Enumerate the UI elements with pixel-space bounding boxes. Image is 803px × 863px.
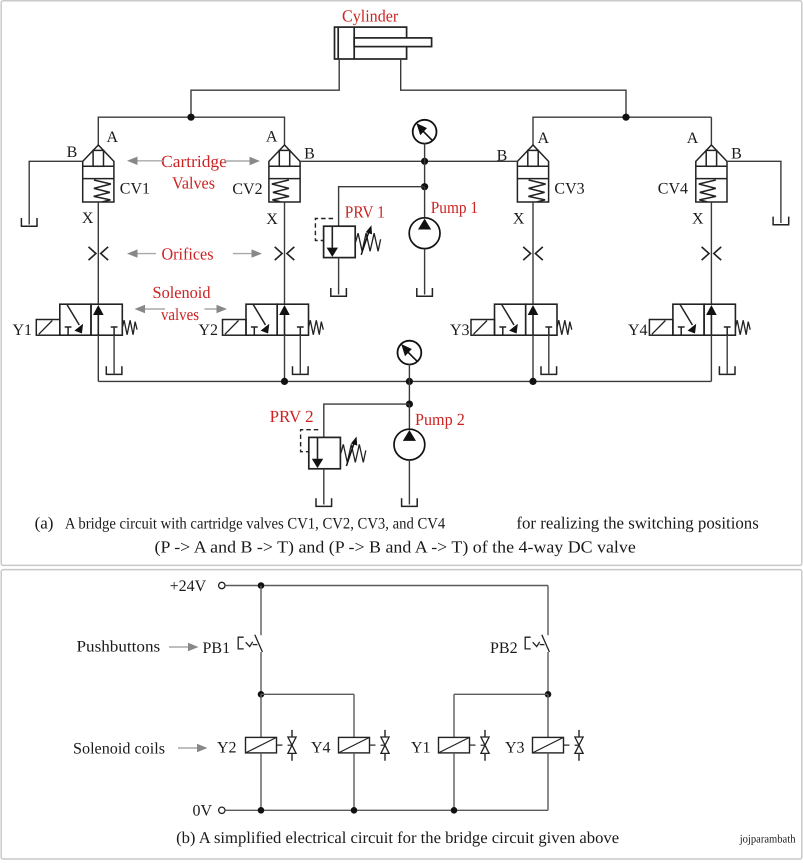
svg-text:Pump 1: Pump 1 <box>431 198 478 217</box>
wire B bus CV2-CV3 <box>300 160 517 162</box>
junction Y2 bus <box>281 378 288 385</box>
wire P Y2 <box>284 335 286 381</box>
pump 2 <box>394 429 425 460</box>
wire B CV4 to tank <box>727 161 781 223</box>
svg-text:Y1: Y1 <box>411 740 431 757</box>
pressure relief valve PRV2 <box>301 430 366 469</box>
svg-text:X: X <box>513 211 525 228</box>
wire pump1 node to pump1 <box>424 187 426 218</box>
wire X CV4 <box>710 202 712 304</box>
svg-text:A bridge circuit with cartridg: A bridge circuit with cartridge valves C… <box>65 516 445 533</box>
terminal +24V <box>219 582 225 588</box>
tank PRV1 <box>330 288 347 296</box>
junction pump1 node <box>421 183 428 190</box>
pushbutton PB1 <box>238 635 262 652</box>
pump 1 <box>409 218 440 249</box>
wire PB2 upper <box>547 586 549 636</box>
svg-text:B: B <box>304 146 315 163</box>
wire pump2 node to pump2 <box>408 404 410 430</box>
arrow to orifice2 <box>233 249 262 257</box>
pressure gauge 1 <box>413 120 437 144</box>
orifice 2 <box>275 247 295 260</box>
svg-text:PB2: PB2 <box>490 640 518 657</box>
pressure gauge 2 <box>398 341 422 365</box>
wire +24V rail <box>225 585 548 587</box>
wire pump2 to tank <box>408 460 410 505</box>
cartridge valve CV4 <box>696 145 727 202</box>
arrow to Y2 coil <box>178 744 208 752</box>
solenoid valve Y3 <box>471 304 572 374</box>
svg-text:Y4: Y4 <box>628 322 648 339</box>
junction left A-bus <box>187 114 194 121</box>
wire Y1 branch to PB2 <box>454 693 548 695</box>
junction PB1 bottom <box>258 691 265 698</box>
pushbutton PB2 <box>525 635 549 652</box>
svg-text:Valves: Valves <box>172 174 215 193</box>
svg-text:CV1: CV1 <box>120 180 150 197</box>
svg-text:B: B <box>731 146 742 163</box>
wire X CV3 <box>532 202 534 304</box>
svg-text:for realizing the switching p: for realizing the switching positions <box>516 514 758 533</box>
arrow to Y2 <box>205 305 228 313</box>
solenoid coil Y3 <box>533 730 584 761</box>
svg-text:X: X <box>82 210 94 227</box>
cylinder <box>335 27 432 59</box>
junction B bus <box>421 158 428 165</box>
cartridge valve CV3 <box>517 145 548 202</box>
arrow to PB1 <box>169 643 199 651</box>
orifice 4 <box>702 247 722 260</box>
junction PB2 bottom <box>545 691 552 698</box>
solenoid valve Y1 <box>36 304 137 374</box>
wire cylinder right port <box>401 59 626 117</box>
arrow to Y1 <box>135 305 166 313</box>
wire gauge2 to bus <box>408 364 410 381</box>
svg-text:Y3: Y3 <box>505 740 525 757</box>
junction right A-bus <box>622 114 629 121</box>
svg-text:X: X <box>266 211 278 228</box>
tank B CV1 <box>21 218 38 226</box>
wire pump2 node to PRV2 <box>324 404 410 437</box>
svg-text:X: X <box>692 211 704 228</box>
wire Y4 branch lower <box>353 753 355 810</box>
wire 0V rail <box>225 809 548 811</box>
junction 0V Y4 <box>351 807 358 814</box>
svg-text:Solenoid coils: Solenoid coils <box>73 740 165 757</box>
frame section b <box>1 570 802 859</box>
wire Y2 branch lower <box>260 753 262 810</box>
svg-text:B: B <box>67 144 78 161</box>
solenoid coil Y2 <box>246 730 297 761</box>
wire pump1 to tank <box>424 249 426 295</box>
svg-text:0V: 0V <box>193 803 213 820</box>
wire P Y1 <box>97 335 99 381</box>
orifice 1 <box>89 247 109 260</box>
wire PRV2 to tank <box>323 469 325 505</box>
wire gauge1 to B bus <box>424 143 426 161</box>
orifice 3 <box>523 247 543 260</box>
svg-text:A: A <box>687 130 699 147</box>
wire B bus to pump1 node <box>424 161 426 186</box>
wire PB2 lower <box>547 652 549 694</box>
solenoid coil Y4 <box>339 730 390 761</box>
solenoid valve Y2 <box>223 304 324 374</box>
wire PB1 lower <box>260 652 262 694</box>
svg-text:Y2: Y2 <box>217 740 237 757</box>
junction pump2 node <box>406 401 413 408</box>
wire Y3 branch lower <box>547 753 549 810</box>
svg-text:Cartridge: Cartridge <box>161 152 227 171</box>
wire pump1 node to PRV1 <box>339 187 425 227</box>
wire P Y4 <box>710 335 712 381</box>
wire PB1 to Y4 branch <box>261 693 354 695</box>
solenoid valve Y4 <box>649 304 750 374</box>
wire bus to pump2 node <box>408 381 410 404</box>
svg-text:PRV 2: PRV 2 <box>270 407 314 426</box>
tank PRV2 <box>315 498 332 506</box>
svg-text:Pump 2: Pump 2 <box>415 410 465 429</box>
svg-text:valves: valves <box>161 305 199 324</box>
wire Y1 branch lower <box>453 753 455 810</box>
wire X CV2 <box>284 202 286 304</box>
terminal 0V <box>219 807 225 813</box>
svg-text:Y3: Y3 <box>450 322 470 339</box>
wire Y2 branch upper <box>260 694 262 737</box>
svg-text:+24V: +24V <box>170 578 207 595</box>
wire B CV1 to tank <box>29 161 82 224</box>
svg-text:Y1: Y1 <box>13 322 33 339</box>
junction 0V Y2 <box>258 807 265 814</box>
junction gauge2 bus <box>406 378 413 385</box>
junction 0V Y1 <box>451 807 458 814</box>
wire Y4 branch upper <box>353 694 355 737</box>
svg-text:Orifices: Orifices <box>162 244 214 263</box>
tank pump2 <box>401 498 418 506</box>
wire PB1 upper <box>260 586 262 636</box>
tank pump1 <box>416 288 433 296</box>
svg-text:Y4: Y4 <box>311 740 331 757</box>
svg-text:PB1: PB1 <box>203 640 231 657</box>
svg-text:CV3: CV3 <box>554 180 584 197</box>
cartridge valve CV1 <box>83 145 114 202</box>
wire cylinder left port <box>191 59 339 117</box>
wire Y3 branch upper <box>547 694 549 737</box>
svg-text:A: A <box>107 129 119 146</box>
tank B CV4 <box>772 217 789 225</box>
cartridge valve CV2 <box>269 145 300 202</box>
frame section a <box>1 1 802 566</box>
svg-text:A: A <box>266 129 278 146</box>
wire X CV1 <box>97 202 99 304</box>
arrow to CV2 <box>224 157 260 165</box>
svg-text:CV4: CV4 <box>658 180 688 197</box>
svg-text:Y2: Y2 <box>198 322 218 339</box>
svg-text:Solenoid: Solenoid <box>153 283 211 302</box>
wire A-bus left <box>98 117 284 145</box>
wire P Y3 <box>532 335 534 381</box>
junction PB1 top <box>258 582 265 589</box>
wire A-bus right <box>533 117 711 145</box>
wire Y1 branch upper <box>453 694 455 737</box>
svg-text:PRV 1: PRV 1 <box>345 203 385 222</box>
svg-text:Pushbuttons: Pushbuttons <box>77 638 161 655</box>
svg-text:(b) A simplified electrical ci: (b) A simplified electrical circuit for … <box>176 828 619 847</box>
junction Y3 bus <box>529 378 536 385</box>
wire PRV1 to tank <box>338 258 340 295</box>
wire pump bus <box>98 380 711 382</box>
svg-text:A: A <box>538 130 550 147</box>
arrow to CV1 <box>127 157 163 165</box>
svg-text:(P -> A and B -> T) and (P -: (P -> A and B -> T) and (P -> B and A ->… <box>155 538 636 557</box>
solenoid coil Y1 <box>439 730 490 761</box>
pressure relief valve PRV1 <box>315 219 380 258</box>
svg-text:jojparambath: jojparambath <box>739 833 796 845</box>
svg-text:(a): (a) <box>35 514 54 533</box>
arrow to orifice1 <box>127 249 156 257</box>
svg-text:Cylinder: Cylinder <box>342 7 399 26</box>
svg-text:CV2: CV2 <box>232 181 262 198</box>
